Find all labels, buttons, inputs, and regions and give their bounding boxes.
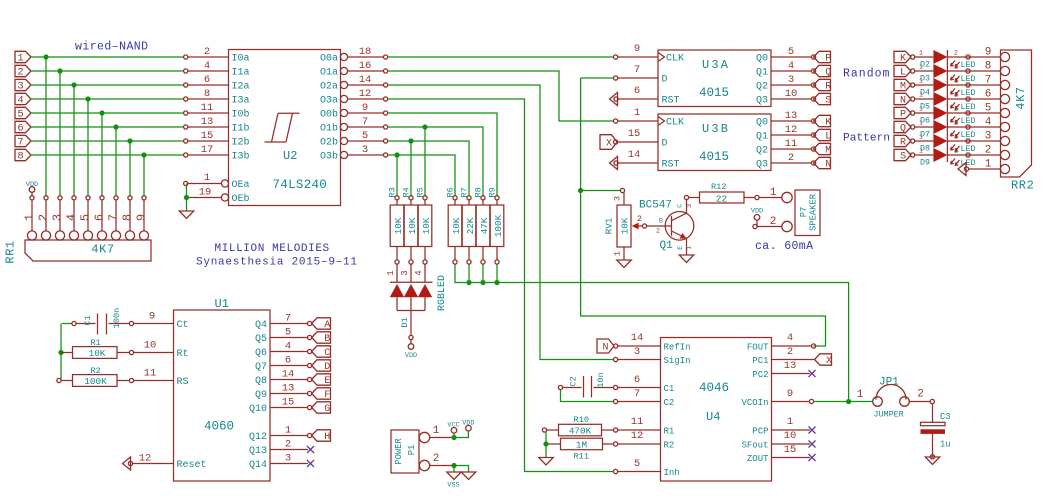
svg-text:Q: Q <box>825 68 831 79</box>
svg-text:1: 1 <box>787 416 793 428</box>
wire O2a to U4 SigIn <box>388 85 614 360</box>
svg-text:5: 5 <box>985 103 992 115</box>
svg-text:2: 2 <box>954 78 958 85</box>
svg-text:JUMPER: JUMPER <box>874 410 904 420</box>
svg-text:R12: R12 <box>711 182 726 192</box>
ground VSS at P1 <box>453 466 455 472</box>
U1 pin 10 Rt <box>134 352 174 354</box>
U2 pin 19 OEb <box>221 194 228 201</box>
svg-text:1: 1 <box>634 107 640 119</box>
svg-text:1: 1 <box>857 389 864 401</box>
RR1 pin 4 <box>72 196 76 200</box>
svg-text:VSS: VSS <box>447 482 459 490</box>
U2 pin 14 O2a <box>340 81 347 88</box>
RR1 pin 8 <box>128 196 132 200</box>
svg-text:Q10: Q10 <box>249 404 267 415</box>
svg-text:R10: R10 <box>574 415 589 425</box>
svg-text:1: 1 <box>919 50 923 57</box>
svg-text:D: D <box>662 139 668 150</box>
resistor R6 10K <box>453 196 457 200</box>
resistor R4 10K <box>409 196 413 200</box>
svg-text:5: 5 <box>362 130 368 142</box>
svg-text:18: 18 <box>359 46 372 58</box>
svg-text:12: 12 <box>359 88 372 100</box>
svg-text:100n: 100n <box>112 308 122 329</box>
svg-text:1: 1 <box>919 106 923 113</box>
svg-text:VDD: VDD <box>751 208 763 216</box>
svg-text:O3b: O3b <box>320 151 338 163</box>
svg-text:Ct: Ct <box>177 320 189 331</box>
svg-text:2: 2 <box>954 120 958 127</box>
U4 pin 3 SigIn <box>614 357 618 361</box>
svg-text:R11: R11 <box>574 452 589 462</box>
junction row2 <box>57 68 62 73</box>
U2 pin 17 I3b <box>188 154 229 156</box>
svg-text:SPEAKER: SPEAKER <box>809 193 819 231</box>
svg-text:R7: R7 <box>459 187 469 197</box>
resistor R1 10K <box>61 352 73 354</box>
wire O0b to R9 <box>388 113 497 196</box>
flag L led row <box>894 65 911 76</box>
resistor R5 10K <box>423 196 427 200</box>
svg-text:ZOUT: ZOUT <box>747 454 769 464</box>
svg-text:RR2: RR2 <box>1011 179 1034 193</box>
ground at RV1 <box>617 260 632 268</box>
svg-text:14: 14 <box>282 369 295 381</box>
wire net row3 horizontal <box>31 84 184 86</box>
RR1 pin 3 <box>58 196 62 200</box>
wire led to RR2 pin 4 <box>947 126 1001 128</box>
U2 pin 16 O1a <box>340 67 347 74</box>
svg-text:M: M <box>900 82 906 93</box>
resistor R7 22K <box>467 196 471 200</box>
svg-text:Q7: Q7 <box>255 362 267 373</box>
wire net row8 horizontal <box>31 154 184 156</box>
U2 pin 8 I3a <box>188 98 229 100</box>
svg-text:X: X <box>606 139 612 150</box>
RR1 pin 7 <box>114 196 118 200</box>
U1 pin 9 Ct <box>134 323 174 325</box>
flag Q <box>814 65 831 76</box>
U2 pin 5 O2b <box>340 137 347 144</box>
svg-text:22: 22 <box>716 193 727 204</box>
svg-text:1: 1 <box>17 53 23 65</box>
U4 pin 1 PCP unconnected <box>772 429 811 431</box>
capacitor C1 100n <box>72 321 76 325</box>
svg-text:2: 2 <box>637 214 642 224</box>
wire net row4 horizontal <box>31 98 184 100</box>
svg-text:10: 10 <box>785 88 798 100</box>
svg-text:I3b: I3b <box>232 151 250 163</box>
svg-text:Reset: Reset <box>177 460 207 471</box>
svg-text:Q1: Q1 <box>660 240 674 252</box>
svg-text:2: 2 <box>204 46 210 58</box>
resistor R12 22 <box>684 195 688 199</box>
svg-text:RST: RST <box>662 96 680 107</box>
svg-text:P1: P1 <box>407 445 417 456</box>
flag R led row <box>894 135 911 146</box>
U3B pin 1 CLK <box>614 119 618 123</box>
svg-text:4: 4 <box>788 60 794 72</box>
ground at U2 OE <box>179 211 194 219</box>
wire O0a to U3A CLK <box>388 56 614 58</box>
junction row6 <box>113 124 118 129</box>
P1 pin 2 wire <box>430 465 452 467</box>
flag N at U4 RefIn <box>597 339 614 353</box>
svg-text:10: 10 <box>784 430 797 442</box>
svg-text:D1: D1 <box>400 317 410 327</box>
svg-text:6: 6 <box>285 355 291 367</box>
capacitor C2 10n <box>558 385 562 389</box>
svg-text:13: 13 <box>201 116 214 128</box>
svg-text:R2: R2 <box>664 440 675 450</box>
svg-text:BC547: BC547 <box>639 200 672 212</box>
wire led to RR2 pin 5 <box>947 112 1001 114</box>
svg-text:11: 11 <box>631 416 644 428</box>
svg-text:10K: 10K <box>619 217 630 234</box>
svg-text:2: 2 <box>285 439 291 451</box>
flag K led row <box>894 51 911 62</box>
svg-text:14: 14 <box>628 149 641 161</box>
wire VCOIn to JP1 <box>814 401 873 403</box>
led D6 <box>911 111 915 115</box>
svg-text:R2: R2 <box>91 366 101 376</box>
svg-text:B: B <box>324 334 330 345</box>
connector pin flag 1 <box>15 51 31 62</box>
U3A pin 9 CLK <box>614 55 618 59</box>
svg-text:B: B <box>659 218 663 225</box>
led D3 <box>911 69 915 73</box>
svg-text:U2: U2 <box>283 149 297 163</box>
svg-text:5: 5 <box>634 458 640 470</box>
flag P <box>814 51 831 62</box>
wire R bottom to bus <box>468 264 470 283</box>
svg-text:VDD: VDD <box>462 420 474 428</box>
U2 schmitt symbol <box>265 113 300 142</box>
connector pin flag 8 <box>15 149 31 160</box>
wire DAC bus to VCOIn <box>455 264 849 402</box>
svg-text:POWER: POWER <box>394 438 404 465</box>
resistor R9 100K <box>495 196 499 200</box>
wire net row6 vertical drop <box>115 127 117 196</box>
svg-text:2: 2 <box>954 148 958 155</box>
resistor R11 1M <box>546 443 561 445</box>
U2 pin 1 OEa <box>221 180 228 187</box>
wire net row4 vertical drop <box>87 99 89 196</box>
wire led to RR2 pin 3 <box>947 140 1001 142</box>
svg-text:15: 15 <box>201 130 214 142</box>
svg-text:RGBLED: RGBLED <box>437 275 448 311</box>
svg-text:470K: 470K <box>569 426 592 437</box>
junction row7 <box>127 138 132 143</box>
svg-text:PCP: PCP <box>752 426 768 436</box>
svg-text:17: 17 <box>201 144 214 156</box>
resistor R2 100K <box>57 378 61 382</box>
svg-text:5: 5 <box>78 214 92 221</box>
svg-text:R: R <box>825 82 831 93</box>
svg-text:2: 2 <box>985 145 992 157</box>
svg-text:PC1: PC1 <box>752 356 768 366</box>
U2 pin 9 O0b <box>340 109 347 116</box>
flag M <box>814 143 831 154</box>
svg-text:9: 9 <box>134 214 148 221</box>
svg-text:2: 2 <box>656 228 660 235</box>
wire net row2 horizontal <box>31 70 184 72</box>
svg-text:6: 6 <box>92 214 106 221</box>
svg-text:Q1: Q1 <box>756 68 768 79</box>
svg-text:9: 9 <box>362 102 368 114</box>
svg-text:RR1: RR1 <box>4 240 18 263</box>
svg-text:SFout: SFout <box>741 440 768 450</box>
power VDD at D1 <box>408 344 414 350</box>
svg-text:R: R <box>900 138 906 149</box>
svg-text:Q6: Q6 <box>255 348 267 359</box>
U3B pin 14 RST <box>618 162 658 164</box>
ground at R10/R11 <box>539 458 554 466</box>
svg-text:7: 7 <box>17 137 23 149</box>
svg-text:C2: C2 <box>664 398 675 408</box>
ic U2 74LS240 body <box>229 50 341 206</box>
svg-text:OEa: OEa <box>232 180 250 191</box>
svg-text:2: 2 <box>917 389 924 401</box>
connector P7 SPEAKER <box>782 192 792 202</box>
svg-text:14: 14 <box>359 74 372 86</box>
svg-text:E: E <box>324 376 330 387</box>
U2 pin 18 O0a <box>340 53 347 60</box>
flag N led row <box>894 93 911 104</box>
power VDD at P1 <box>454 431 468 438</box>
svg-text:FOUT: FOUT <box>747 342 769 352</box>
svg-text:2: 2 <box>770 216 777 228</box>
svg-text:P: P <box>900 110 906 121</box>
wire O1b to R8 and R5 <box>388 127 483 196</box>
wire R bottom to bus <box>496 264 498 283</box>
svg-text:10K: 10K <box>421 217 432 234</box>
U2 pin 7 O1b <box>340 123 347 130</box>
wire net row7 horizontal <box>31 140 184 142</box>
svg-text:3: 3 <box>362 144 368 156</box>
svg-text:Inh: Inh <box>664 468 680 478</box>
U4 pin 10 SFout unconnected <box>772 443 811 445</box>
svg-text:Q8: Q8 <box>255 376 267 387</box>
wire net row7 vertical drop <box>129 141 131 196</box>
svg-text:1: 1 <box>204 172 210 184</box>
svg-text:2: 2 <box>433 453 440 465</box>
capacitor C3 1u <box>921 422 946 425</box>
svg-text:I0b: I0b <box>232 109 250 121</box>
ic U1 4060 body <box>174 310 271 481</box>
RR1 pin 9 <box>142 196 146 200</box>
svg-text:47K: 47K <box>479 217 490 234</box>
svg-text:5: 5 <box>17 109 23 121</box>
svg-text:4060: 4060 <box>204 420 234 434</box>
svg-text:100K: 100K <box>84 376 107 387</box>
svg-text:wired–NAND: wired–NAND <box>75 41 149 54</box>
svg-text:C3: C3 <box>940 412 951 422</box>
svg-text:1: 1 <box>919 134 923 141</box>
svg-text:8: 8 <box>120 214 134 221</box>
svg-text:Q2: Q2 <box>756 82 768 93</box>
svg-text:K: K <box>825 118 831 129</box>
svg-text:9: 9 <box>985 47 992 59</box>
connector pin flag 3 <box>15 79 31 90</box>
svg-text:2: 2 <box>787 346 793 358</box>
svg-text:I1b: I1b <box>232 123 250 135</box>
wire net row1 vertical drop <box>45 57 47 196</box>
RR1 pin 5 <box>86 196 90 200</box>
svg-text:4015: 4015 <box>699 86 729 100</box>
svg-text:100K: 100K <box>493 214 504 237</box>
RR2 pin 1 common <box>968 168 1001 170</box>
svg-text:C1: C1 <box>664 384 675 394</box>
U2 pin 2 I0a <box>188 56 229 58</box>
U2 pin 4 I1a <box>188 70 229 72</box>
svg-text:15: 15 <box>784 444 797 456</box>
wire C1/R1/R2 left vertical <box>60 324 62 381</box>
svg-text:6: 6 <box>634 85 640 97</box>
svg-text:S: S <box>900 152 906 163</box>
svg-text:12: 12 <box>631 430 644 442</box>
svg-text:D: D <box>324 362 330 373</box>
svg-text:12: 12 <box>785 124 798 136</box>
svg-text:7: 7 <box>634 388 640 400</box>
svg-text:O2b: O2b <box>320 137 338 149</box>
svg-text:N: N <box>900 96 906 107</box>
wire net row5 horizontal <box>31 112 184 114</box>
svg-text:19: 19 <box>199 187 212 199</box>
svg-text:VDD: VDD <box>26 181 38 189</box>
U4 pin 13 PC2 unconnected <box>772 373 811 375</box>
svg-text:6: 6 <box>17 123 23 135</box>
connector pin flag 5 <box>15 107 31 118</box>
svg-text:E: E <box>677 246 684 250</box>
flag L <box>814 129 831 140</box>
flag P led row <box>894 107 911 118</box>
connector pin flag 6 <box>15 121 31 132</box>
svg-text:Random: Random <box>843 68 890 81</box>
U2 pin 13 I1b <box>188 126 229 128</box>
led D9 <box>911 153 915 157</box>
svg-text:Q14: Q14 <box>249 460 267 471</box>
U3A pin 6 RST <box>618 98 658 100</box>
svg-text:4: 4 <box>414 270 424 275</box>
svg-text:1: 1 <box>686 246 693 250</box>
wire FOUT net to U3A D <box>581 77 614 79</box>
U1 pin 11 RS <box>134 380 174 382</box>
svg-text:2: 2 <box>954 50 958 57</box>
svg-text:7: 7 <box>985 75 992 87</box>
wire net row2 vertical drop <box>59 71 61 196</box>
resistor network RR1 VDD pin <box>29 187 35 193</box>
svg-text:10: 10 <box>144 340 157 352</box>
svg-text:I2a: I2a <box>232 82 250 93</box>
resistor R8 47K <box>481 196 485 200</box>
svg-text:C: C <box>324 348 330 359</box>
svg-text:3: 3 <box>50 214 64 221</box>
svg-text:22K: 22K <box>465 217 476 234</box>
svg-text:U4: U4 <box>706 410 720 424</box>
svg-text:Q3: Q3 <box>756 96 768 107</box>
svg-text:Synaesthesia 2015–9–11: Synaesthesia 2015–9–11 <box>196 256 358 268</box>
led D4 <box>911 83 915 87</box>
wire O1a to U3B CLK <box>388 71 614 121</box>
wire net row3 vertical drop <box>73 85 75 196</box>
connector P1 POWER body <box>391 430 419 473</box>
svg-text:1M: 1M <box>576 439 587 450</box>
svg-text:JP1: JP1 <box>879 377 899 389</box>
wire led to RR2 pin 8 <box>947 70 1001 72</box>
resistor R3 10K <box>395 196 399 200</box>
svg-text:3: 3 <box>17 81 23 93</box>
svg-text:CLK: CLK <box>666 118 684 129</box>
svg-text:P7: P7 <box>799 207 809 218</box>
U1 pin 12 Reset <box>132 463 174 465</box>
svg-text:Pattern: Pattern <box>843 133 890 145</box>
svg-text:2: 2 <box>17 67 23 79</box>
svg-text:VCC: VCC <box>447 422 459 430</box>
junction row8 <box>141 152 146 157</box>
svg-text:1: 1 <box>919 78 923 85</box>
svg-text:5: 5 <box>285 327 291 339</box>
svg-text:PC2: PC2 <box>752 370 768 380</box>
P1 pin 1 wire <box>430 437 452 439</box>
svg-text:9: 9 <box>634 43 640 55</box>
svg-text:13: 13 <box>282 383 295 395</box>
svg-text:1: 1 <box>770 187 777 199</box>
svg-text:2: 2 <box>954 64 958 71</box>
wire R10-R11 junction to ground <box>545 432 547 457</box>
wire U3A D / RV1 / FOUT net <box>581 78 826 346</box>
ic U4 4046 body <box>661 338 772 482</box>
svg-text:3: 3 <box>686 204 693 208</box>
wire net row8 vertical drop <box>143 155 145 196</box>
flag N <box>814 157 831 168</box>
svg-text:8: 8 <box>17 151 23 163</box>
svg-text:13: 13 <box>784 360 797 372</box>
svg-text:D: D <box>662 75 668 86</box>
svg-text:U3A: U3A <box>702 58 730 72</box>
svg-text:Q4: Q4 <box>255 320 267 331</box>
svg-text:M: M <box>825 146 831 157</box>
svg-text:1: 1 <box>919 148 923 155</box>
svg-text:U3B: U3B <box>702 122 730 136</box>
svg-text:4: 4 <box>985 117 992 129</box>
svg-text:16: 16 <box>359 60 372 72</box>
svg-text:3: 3 <box>788 74 794 86</box>
flag Q led row <box>894 121 911 132</box>
svg-text:4: 4 <box>285 341 291 353</box>
svg-text:10n: 10n <box>596 372 606 387</box>
RR1 pin 1 <box>27 231 36 240</box>
svg-text:RS: RS <box>177 377 189 388</box>
svg-text:10K: 10K <box>393 217 404 234</box>
led D5 <box>911 97 915 101</box>
svg-text:10K: 10K <box>407 217 418 234</box>
svg-text:R9: R9 <box>487 187 497 197</box>
junction row4 <box>85 96 90 101</box>
svg-text:G: G <box>324 404 330 415</box>
svg-text:O0a: O0a <box>320 54 338 65</box>
svg-text:4K7: 4K7 <box>91 243 114 257</box>
wire O2b to R7 and R4 <box>388 141 469 196</box>
svg-text:74LS240: 74LS240 <box>273 178 328 192</box>
svg-text:R6: R6 <box>445 187 455 197</box>
svg-text:OEb: OEb <box>232 193 250 205</box>
svg-text:9: 9 <box>149 311 155 323</box>
flag S led row <box>894 149 911 160</box>
svg-text:R1: R1 <box>91 338 101 348</box>
svg-text:C2: C2 <box>569 376 579 386</box>
